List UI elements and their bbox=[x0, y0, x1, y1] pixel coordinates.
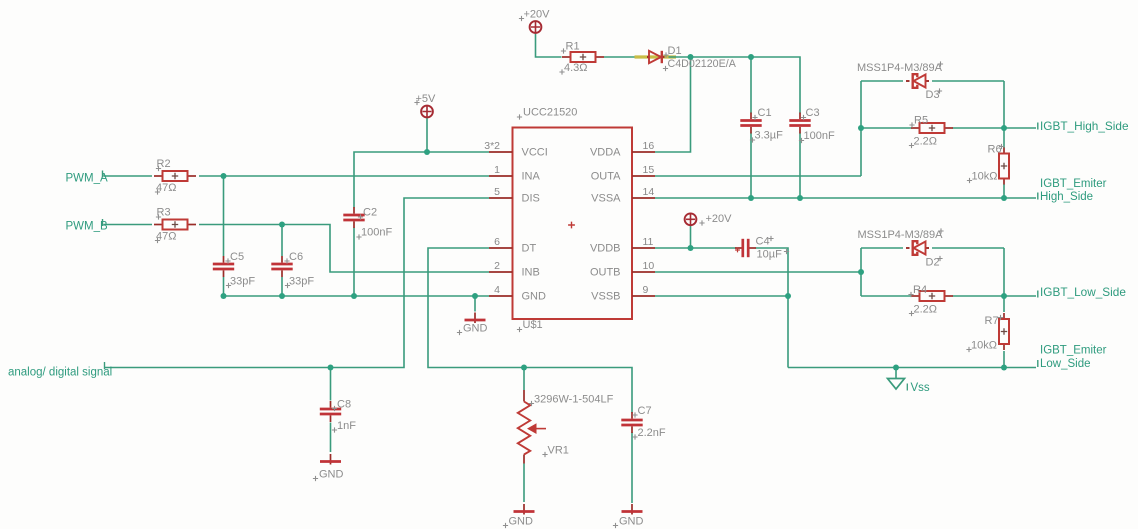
wire VCCI pin to C2 corner bbox=[354, 152, 489, 208]
resistor R3 bbox=[154, 220, 196, 230]
capacitor C5 bbox=[213, 256, 234, 277]
wire high-side right vertical upper bbox=[1003, 81, 1005, 148]
node OUTB-D2 bbox=[858, 269, 864, 275]
diode D1 bbox=[647, 51, 665, 63]
svg-text:C3: C3 bbox=[806, 107, 820, 119]
wire R1 to D1 anode bbox=[604, 56, 642, 58]
wire C6 top branch bbox=[281, 225, 283, 257]
label 2.2 ohm R5 bbox=[909, 136, 937, 149]
svg-text:U$1: U$1 bbox=[523, 319, 543, 331]
label D1 bbox=[663, 45, 681, 58]
capacitor C8 bbox=[320, 401, 341, 422]
wire VSSA pin 14 rail to IGBT emitter high side bbox=[655, 197, 1036, 199]
wire OUTA pin 15 to high-side block bbox=[655, 175, 861, 177]
svg-text:11: 11 bbox=[643, 236, 654, 248]
label R7 bbox=[985, 315, 1004, 327]
label 100nF C2 bbox=[356, 227, 392, 240]
svg-text:3296W-1-504LF: 3296W-1-504LF bbox=[534, 394, 614, 406]
label MSS1P4-M3/89A high bbox=[857, 61, 943, 74]
node +20V-VDDB bbox=[688, 245, 694, 251]
wire OUTB pin 10 to low-side block bbox=[655, 271, 861, 273]
label 33pF C5 bbox=[226, 276, 255, 289]
node VR1 tap bbox=[521, 365, 527, 371]
resistor R7 bbox=[999, 313, 1009, 350]
label R5 bbox=[909, 115, 928, 128]
U1 name label UCC21520 bbox=[517, 107, 578, 120]
wire C2 bottom to GND rail bbox=[353, 228, 355, 297]
svg-text:VR1: VR1 bbox=[548, 445, 569, 457]
label 47 ohm R3 bbox=[155, 231, 177, 244]
net label IGBT_Low_Side bbox=[1038, 285, 1127, 299]
svg-text:R1: R1 bbox=[566, 41, 580, 53]
wire D3 cathode rail bbox=[932, 80, 1004, 82]
label GND pin4 bbox=[457, 323, 488, 336]
label C2 bbox=[358, 207, 377, 220]
svg-text:C2: C2 bbox=[363, 207, 377, 219]
wire PWM_A to R2 bbox=[104, 175, 153, 177]
wire VDDB pin 11 to C4 bbox=[655, 247, 736, 249]
svg-text:10: 10 bbox=[643, 260, 655, 272]
label 3296W-1-504LF bbox=[529, 394, 614, 407]
svg-text:Low_Side: Low_Side bbox=[1040, 358, 1091, 370]
svg-text:GND: GND bbox=[619, 516, 644, 528]
pin VDDA stub bbox=[632, 151, 655, 153]
svg-text:1nF: 1nF bbox=[337, 420, 356, 432]
svg-text:+20V: +20V bbox=[524, 9, 551, 21]
node C5-GND bbox=[221, 293, 227, 299]
label C5 bbox=[225, 251, 244, 264]
U1 pin names bbox=[522, 147, 622, 303]
svg-text:6: 6 bbox=[494, 236, 500, 248]
svg-text:3.3µF: 3.3µF bbox=[755, 130, 784, 142]
svg-text:+5V: +5V bbox=[416, 93, 437, 105]
svg-text:Vss: Vss bbox=[911, 382, 930, 394]
svg-text:C5: C5 bbox=[230, 251, 244, 263]
pin VSSB stub bbox=[632, 295, 655, 297]
wire low-side left vertical bbox=[860, 248, 862, 296]
power +5V symbol bbox=[421, 106, 433, 118]
svg-text:OUTB: OUTB bbox=[590, 267, 621, 279]
svg-text:GND: GND bbox=[509, 516, 534, 528]
node D1-VDDA bbox=[688, 54, 694, 60]
wire D1 cathode to VDDA rail with corner down to C3 bbox=[669, 57, 801, 114]
resistor R6 bbox=[999, 148, 1009, 185]
node R5-gate bbox=[1001, 125, 1007, 131]
svg-text:High_Side: High_Side bbox=[1040, 191, 1093, 203]
svg-text:1: 1 bbox=[494, 164, 500, 176]
wire D2 anode rail bbox=[861, 247, 903, 249]
capacitor C6 bbox=[271, 256, 292, 277]
pin GND stub bbox=[489, 295, 513, 297]
svg-text:C1: C1 bbox=[758, 107, 772, 119]
wire R2 to INA pin 1 bbox=[199, 175, 489, 177]
label 2.2 ohm R4 bbox=[909, 304, 937, 317]
svg-text:VCCI: VCCI bbox=[522, 147, 548, 159]
svg-text:10µF: 10µF bbox=[757, 249, 783, 261]
svg-text:GND: GND bbox=[463, 323, 488, 335]
svg-text:PWM_B: PWM_B bbox=[66, 221, 109, 233]
svg-text:R4: R4 bbox=[913, 284, 927, 296]
wire high-side left vertical bbox=[860, 81, 862, 176]
wire DT pin 6 down to RC network bbox=[428, 248, 632, 413]
svg-text:C6: C6 bbox=[289, 251, 303, 263]
svg-text:R5: R5 bbox=[914, 115, 928, 127]
wire R7 bottom to emitter rail bbox=[1003, 351, 1005, 368]
capacitor C7 bbox=[621, 412, 642, 433]
potentiometer VR1 bbox=[518, 390, 546, 464]
label R6 bbox=[988, 144, 1005, 156]
wire C3 bottom to VSSA rail bbox=[799, 133, 801, 199]
node R6-VSSA bbox=[1001, 195, 1007, 201]
resistor R2 bbox=[154, 171, 196, 181]
wire VDDA pin 16 up to D1 net bbox=[655, 57, 691, 152]
node C8 tap bbox=[328, 365, 334, 371]
svg-text:10kΩ: 10kΩ bbox=[971, 340, 997, 352]
svg-text:VSSB: VSSB bbox=[591, 291, 620, 303]
node C2-GND bbox=[351, 293, 357, 299]
label GND C8 bbox=[313, 469, 344, 482]
pin OUTA stub bbox=[632, 175, 655, 177]
power +20V symbol mid bbox=[685, 213, 697, 225]
capacitor C1 bbox=[740, 113, 761, 134]
wire R5 right bbox=[953, 127, 1005, 129]
wire +20V second supply stem bbox=[690, 225, 692, 248]
svg-text:VDDA: VDDA bbox=[590, 147, 621, 159]
wire C4 to VSSB vertical bbox=[756, 248, 789, 368]
node C1-VSSA bbox=[748, 195, 754, 201]
wire C5 top branch bbox=[223, 176, 225, 256]
U1 designator U$1 bbox=[517, 319, 543, 332]
diode D3 schottky bbox=[906, 74, 929, 88]
label GND VR1 bbox=[503, 516, 533, 529]
label C4D02120E/A bbox=[663, 58, 737, 71]
svg-text:IGBT_High_Side: IGBT_High_Side bbox=[1040, 119, 1129, 133]
svg-text:IGBT_Emiter: IGBT_Emiter bbox=[1040, 178, 1107, 190]
highlighted net segment at D1 (yellow) bbox=[635, 55, 677, 58]
label 3.3uF bbox=[750, 130, 783, 143]
wire C8 top branch bbox=[330, 368, 332, 401]
node C1 top bbox=[748, 54, 754, 60]
pin VDDB stub bbox=[632, 247, 655, 249]
label GND C7 bbox=[613, 516, 644, 529]
svg-text:GND: GND bbox=[319, 469, 344, 481]
node Vss tap bbox=[893, 365, 899, 371]
svg-text:2.2Ω: 2.2Ω bbox=[914, 304, 938, 316]
svg-text:GND: GND bbox=[522, 291, 547, 303]
U1 pin numbers bbox=[484, 140, 654, 296]
pin OUTB stub bbox=[632, 271, 655, 273]
wire R5 left bbox=[861, 127, 912, 129]
op-amp U1 UCC21520 gate driver body bbox=[513, 128, 633, 320]
net label analog/ digital signal bbox=[8, 362, 112, 379]
label 33pF C6 bbox=[285, 276, 314, 289]
svg-text:14: 14 bbox=[643, 186, 655, 198]
pin INB stub bbox=[489, 271, 513, 273]
ground Vss symbol bbox=[888, 379, 905, 390]
label C1 bbox=[752, 107, 771, 120]
svg-text:INA: INA bbox=[522, 171, 541, 183]
label 10k ohm R6 bbox=[967, 171, 998, 184]
svg-text:UCC21520: UCC21520 bbox=[523, 107, 577, 119]
svg-text:2.2nF: 2.2nF bbox=[638, 427, 666, 439]
wire Vss stem bbox=[895, 368, 897, 379]
wire GND symbol stem at pin 4 bbox=[474, 296, 476, 312]
wire +5V stem bbox=[426, 118, 428, 152]
svg-text:R6: R6 bbox=[988, 144, 1002, 156]
svg-text:PWM_A: PWM_A bbox=[66, 173, 109, 185]
label R1 bbox=[561, 41, 580, 54]
resistor R4 bbox=[911, 291, 953, 301]
capacitor C4 bbox=[735, 239, 756, 257]
label 4.3 ohm bbox=[559, 62, 587, 75]
pin DT stub bbox=[489, 247, 513, 249]
wire D3 anode rail bbox=[861, 80, 903, 82]
node R7-emitter bbox=[1001, 365, 1007, 371]
svg-text:OUTA: OUTA bbox=[591, 171, 621, 183]
wire GND pin 4 rail bbox=[224, 295, 490, 297]
label VR1 bbox=[542, 445, 569, 458]
label 1nF bbox=[332, 420, 356, 433]
label 10uF bbox=[757, 249, 790, 261]
svg-text:3*2: 3*2 bbox=[484, 140, 500, 152]
net label PWM_B bbox=[66, 219, 109, 233]
wire VSSB pin 9 bbox=[655, 295, 788, 297]
net label IGBT_Emiter Low_Side bbox=[1038, 345, 1107, 371]
label C3 bbox=[801, 107, 820, 120]
ground symbol at C8 bbox=[320, 454, 341, 465]
label +20V bbox=[519, 9, 550, 22]
wire C1 top branch bbox=[750, 57, 752, 114]
pin DIS stub bbox=[489, 197, 513, 199]
label R2 bbox=[156, 158, 171, 171]
wire IGBT_High_Side stub bbox=[1004, 127, 1036, 129]
label 2.2nF bbox=[632, 427, 666, 440]
svg-text:C4: C4 bbox=[756, 236, 770, 248]
wire VR1 bottom to GND bbox=[523, 464, 525, 503]
wire R4 left bbox=[861, 295, 912, 297]
wire D2 cathode rail bbox=[932, 247, 1004, 249]
label 100nF bbox=[799, 130, 835, 143]
wire +20V supply stem to R1 bbox=[536, 33, 562, 57]
ground symbol at pin 4 bbox=[465, 313, 486, 324]
wire PWM_B to R3 bbox=[104, 224, 153, 226]
svg-text:33pF: 33pF bbox=[230, 276, 255, 288]
svg-text:IGBT_Emiter: IGBT_Emiter bbox=[1040, 345, 1107, 357]
svg-text:R7: R7 bbox=[985, 315, 999, 327]
power +20V symbol top bbox=[530, 21, 542, 33]
wire C1 bottom to VSSA rail bbox=[750, 133, 752, 199]
label MSS1P4-M3/89A low bbox=[858, 228, 944, 241]
node +5V-VCCI bbox=[424, 149, 430, 155]
node OUTA-D3 bbox=[858, 125, 864, 131]
svg-text:100nF: 100nF bbox=[361, 227, 392, 239]
capacitor C3 bbox=[789, 113, 810, 134]
net label PWM_A bbox=[66, 171, 109, 185]
svg-text:16: 16 bbox=[643, 140, 655, 152]
svg-text:5: 5 bbox=[494, 186, 500, 198]
wire C6 bottom bbox=[281, 277, 283, 296]
net label IGBT_Emiter High_Side bbox=[1038, 178, 1107, 203]
ground symbol at VR1 bbox=[514, 504, 535, 515]
label C6 bbox=[284, 251, 303, 264]
node VSSB tap bbox=[785, 293, 791, 299]
wire IGBT_Low_Side stub bbox=[1004, 295, 1036, 297]
wire low-side right vertical upper bbox=[1003, 248, 1005, 312]
label D3 bbox=[926, 88, 943, 101]
wire R6 bottom to VSSA rail bbox=[1003, 184, 1005, 198]
svg-text:2: 2 bbox=[494, 260, 500, 272]
label R4 bbox=[908, 284, 927, 297]
label +20V mid bbox=[699, 213, 732, 226]
label R3 bbox=[156, 207, 171, 220]
svg-text:DIS: DIS bbox=[522, 193, 540, 205]
svg-text:D1: D1 bbox=[668, 45, 682, 57]
svg-text:C8: C8 bbox=[337, 399, 351, 411]
label C7 bbox=[632, 405, 651, 418]
svg-text:C4D02120E/A: C4D02120E/A bbox=[668, 58, 737, 70]
capacitor C2 bbox=[343, 207, 364, 228]
label D2 bbox=[926, 256, 943, 269]
svg-text:MSS1P4-M3/89A: MSS1P4-M3/89A bbox=[857, 62, 943, 74]
svg-text:33pF: 33pF bbox=[289, 276, 314, 288]
svg-text:4.3Ω: 4.3Ω bbox=[564, 62, 588, 74]
label C8 bbox=[332, 399, 351, 412]
resistor R1 bbox=[562, 52, 604, 62]
svg-text:INB: INB bbox=[522, 267, 540, 279]
wire R4 right bbox=[953, 295, 1005, 297]
svg-text:4: 4 bbox=[494, 284, 500, 296]
svg-text:IGBT_Low_Side: IGBT_Low_Side bbox=[1040, 285, 1126, 299]
node PWM_B-C6 bbox=[279, 222, 285, 228]
wire C7 bottom to GND bbox=[631, 432, 633, 503]
wire emitter low side rail bbox=[788, 367, 1036, 369]
wire VR1 top branch bbox=[523, 368, 525, 391]
diode D2 schottky bbox=[906, 241, 929, 255]
svg-text:100nF: 100nF bbox=[804, 130, 835, 142]
resistor R5 bbox=[911, 123, 953, 133]
svg-text:MSS1P4-M3/89A: MSS1P4-M3/89A bbox=[858, 229, 944, 241]
node GND symbol tap bbox=[472, 293, 478, 299]
label C4 bbox=[756, 236, 774, 248]
ground symbol at C7 bbox=[622, 504, 643, 515]
net label IGBT_High_Side bbox=[1038, 119, 1129, 133]
wire C5 bottom bbox=[223, 277, 225, 296]
svg-text:9: 9 bbox=[643, 284, 649, 296]
svg-text:+20V: +20V bbox=[706, 213, 733, 225]
label +5V bbox=[414, 93, 436, 105]
svg-text:VSSA: VSSA bbox=[591, 193, 621, 205]
svg-text:analog/ digital signal: analog/ digital signal bbox=[8, 367, 112, 379]
label Vss bbox=[907, 382, 930, 394]
svg-text:VDDB: VDDB bbox=[590, 243, 621, 255]
svg-text:C7: C7 bbox=[638, 405, 652, 417]
svg-text:10kΩ: 10kΩ bbox=[972, 171, 998, 183]
node PWM_A-INA bbox=[221, 173, 227, 179]
pin VCCI stub bbox=[489, 151, 513, 153]
label 47 ohm R2 bbox=[155, 182, 177, 195]
svg-text:2.2Ω: 2.2Ω bbox=[914, 136, 938, 148]
svg-text:15: 15 bbox=[643, 164, 655, 176]
label 10k ohm R7 bbox=[966, 340, 997, 353]
wire R3 to INB pin 2 bbox=[199, 225, 489, 273]
node C3-VSSA bbox=[797, 195, 803, 201]
node C6-GND bbox=[279, 293, 285, 299]
wire DIS pin 5 to analog signal bbox=[105, 198, 489, 368]
pin VSSA stub bbox=[632, 197, 655, 199]
wire C8 bottom to GND bbox=[330, 423, 332, 453]
pin INA stub bbox=[489, 175, 513, 177]
node R4-gate bbox=[1001, 293, 1007, 299]
svg-text:DT: DT bbox=[522, 243, 537, 255]
